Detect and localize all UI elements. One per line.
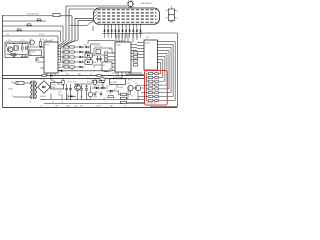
IC D4 KR1016VI1 — [144, 38, 158, 70]
capacitor C10 — [85, 86, 88, 100]
wire row 5 — [3, 36, 59, 44]
svg-text:VD1-VD4: VD1-VD4 — [39, 79, 46, 81]
svg-text:9: 9 — [133, 26, 134, 28]
diode VD9 on bus — [42, 74, 52, 76]
wire net to D3 left — [88, 41, 115, 45]
resonator ZQ1 — [53, 13, 66, 16]
svg-text:SB1-SB3 SBУ: SB1-SB3 SBУ — [27, 14, 40, 16]
wire D1 bottom pins — [47, 73, 55, 79]
resistor R24 vertical — [62, 80, 64, 84]
svg-text:СБ: СБ — [45, 40, 47, 42]
capacitor C1 — [22, 44, 24, 53]
wire outer bus right — [150, 33, 177, 106]
label box D2 — [110, 79, 126, 85]
svg-text:КТ361: КТ361 — [128, 73, 132, 75]
svg-text:a: a — [171, 5, 172, 7]
svg-text:C14: C14 — [103, 98, 106, 100]
switch S8 in red box — [146, 99, 160, 101]
svg-text:D4: D4 — [147, 37, 149, 39]
fuse FU1 — [12, 82, 31, 85]
wire psu rails — [40, 84, 145, 100]
driver row 3 — [61, 54, 85, 58]
svg-text:VT5: VT5 — [94, 97, 97, 99]
junction dots psu — [43, 85, 95, 100]
svg-text:ГД: ГД — [52, 40, 54, 42]
wire bus vertical 3 — [66, 16, 72, 40]
svg-text:R10: R10 — [90, 78, 93, 80]
resistor R19 — [100, 78, 105, 80]
svg-text:2: 2 — [140, 26, 141, 28]
label box mid — [102, 62, 112, 71]
svg-text:ИЕ18: ИЕ18 — [45, 45, 49, 47]
transistor VT4 — [75, 85, 81, 91]
svg-text:R23: R23 — [128, 80, 131, 82]
bridge rectifier VD1 — [38, 81, 51, 94]
resistor R2 — [40, 39, 42, 49]
svg-text:ИВ ЛМ5-08: ИВ ЛМ5-08 — [141, 3, 153, 5]
switch SB1 — [37, 19, 42, 22]
wire left border bus — [2, 15, 4, 108]
switch S3 in red box — [146, 80, 160, 82]
svg-text:D3: D3 — [116, 37, 118, 39]
svg-text:C8: C8 — [61, 102, 63, 104]
crystal ZQ — [13, 46, 18, 51]
wire driver verticals — [58, 46, 63, 67]
svg-text:VD5 VD6: VD5 VD6 — [97, 85, 103, 87]
svg-text:g: g — [169, 13, 170, 15]
switch S7 in red box — [146, 96, 160, 98]
label red box bottom — [147, 103, 157, 105]
transistor VT6 — [128, 85, 133, 90]
wire bottom border bus — [3, 107, 178, 109]
svg-text:R11: R11 — [133, 50, 136, 52]
label bottom texts — [40, 102, 101, 108]
wire main bus 1 — [3, 75, 145, 77]
transistor VT5 — [88, 86, 93, 100]
label VD — [39, 79, 47, 98]
svg-text:2: 2 — [107, 26, 108, 28]
transistor VT2 — [30, 40, 35, 45]
IC D3 K155ID10 — [115, 40, 131, 72]
svg-text:МИН: МИН — [66, 106, 70, 108]
svg-text:R4-R10: R4-R10 — [60, 44, 66, 46]
svg-text:C1 C2: C1 C2 — [20, 40, 25, 42]
wire links into red box — [138, 85, 146, 96]
wire xtal net — [94, 48, 115, 55]
svg-text:c: c — [177, 18, 178, 20]
oscillator box — [5, 42, 28, 58]
svg-text:КЛ-Зв: КЛ-Зв — [39, 34, 44, 36]
switch S5 in red box — [146, 88, 160, 90]
transistor VT1 — [7, 47, 12, 52]
label box freq — [29, 50, 42, 56]
wire row 2 — [3, 21, 47, 22]
junction dots osc — [13, 43, 26, 44]
diode VD7 — [106, 90, 119, 92]
svg-text:R21: R21 — [96, 92, 99, 94]
wire main bus 2 — [3, 78, 145, 80]
svg-text:VT2: VT2 — [29, 39, 32, 41]
switch S2 in red box — [146, 76, 160, 78]
svg-text:R16: R16 — [85, 86, 88, 88]
svg-text:8: 8 — [129, 26, 130, 28]
label psu texts — [80, 83, 138, 99]
svg-text:Гц: Гц — [30, 54, 32, 56]
svg-text:R16: R16 — [87, 81, 90, 83]
svg-text:50В: 50В — [58, 94, 61, 96]
svg-text:5: 5 — [118, 26, 119, 28]
svg-text:+: + — [63, 87, 64, 89]
svg-text:e: e — [164, 18, 165, 20]
label KL-3V — [7, 34, 44, 36]
resistor R10 — [92, 81, 97, 83]
resistor R15 — [108, 96, 113, 98]
svg-text:Т2: Т2 — [100, 69, 102, 71]
svg-text:ЧЦ МЦ: ЧЦ МЦ — [115, 77, 121, 79]
resistor R13 — [121, 97, 127, 99]
svg-text:R11: R11 — [96, 78, 99, 80]
label psu specks 3 — [58, 73, 132, 96]
wire bus to D3 top — [105, 34, 141, 43]
IC D1 left pins — [38, 47, 44, 68]
wire osc to D1 — [28, 47, 44, 60]
switch S1 in red box — [146, 72, 160, 74]
driver row 5 — [61, 64, 85, 68]
wire long net A — [58, 68, 110, 72]
svg-text:1000: 1000 — [58, 92, 62, 94]
wire bottom rail 2 — [44, 103, 145, 105]
svg-text:Т1: Т1 — [40, 106, 42, 108]
svg-text:VT6: VT6 — [127, 83, 130, 85]
capacitor C9 — [80, 86, 83, 100]
capacitor C7 — [63, 84, 68, 100]
ground symbols osc — [13, 55, 27, 58]
driver row 1 — [61, 44, 91, 48]
resistor R25 vertical — [94, 80, 96, 84]
wire osc top — [7, 44, 28, 48]
capacitor C6 — [99, 56, 102, 62]
svg-text:4: 4 — [115, 26, 116, 28]
wire bus vertical 4 — [75, 18, 93, 40]
wire loop inner to display — [69, 9, 94, 40]
IC D1 right pins — [58, 46, 61, 70]
wire psu verticals — [63, 76, 103, 100]
diode VD6 — [102, 87, 105, 90]
display segment diagram — [164, 5, 177, 22]
svg-text:VD5: VD5 — [106, 86, 109, 88]
label plus — [51, 80, 55, 82]
wire bus vertical 5 — [78, 20, 93, 40]
label osc parts — [8, 39, 44, 42]
driver row 4 — [61, 59, 85, 63]
svg-text:С5: С5 — [95, 40, 97, 42]
resistor R14 — [121, 101, 127, 103]
label mid — [94, 46, 102, 48]
wire loop outer to lamp — [66, 6, 127, 40]
display grid dashes — [98, 10, 157, 22]
svg-text:ZQ2 C5 C6: ZQ2 C5 C6 — [94, 46, 102, 48]
svg-text:КТ3107: КТ3107 — [118, 87, 123, 89]
svg-text:VD7: VD7 — [109, 93, 112, 95]
IC D3 left pin resistors — [104, 52, 115, 72]
wire D4 bottom — [147, 70, 152, 72]
wire row 1 from left bus — [3, 15, 54, 17]
IC D4 right pins to bus — [158, 42, 176, 101]
label 220V — [6, 89, 13, 91]
svg-text:VT7: VT7 — [135, 83, 138, 85]
transformer T1 — [31, 81, 37, 100]
wire row 4 — [3, 31, 61, 42]
svg-text:1: 1 — [104, 26, 105, 28]
label pin numbers — [104, 26, 141, 28]
capacitor C4 — [96, 50, 101, 54]
display pins — [105, 24, 141, 28]
capacitor C11 — [94, 92, 97, 97]
label psu texts 2 — [53, 78, 134, 97]
grid driver row — [102, 28, 142, 34]
svg-text:C7: C7 — [52, 102, 54, 104]
svg-text:К155ИД10: К155ИД10 — [116, 40, 125, 42]
svg-text:7: 7 — [125, 26, 126, 28]
label nets — [66, 69, 121, 79]
IC D1 K176IE18 — [44, 40, 59, 73]
resistor R26 vertical — [102, 78, 104, 82]
diode VD5 — [92, 87, 106, 90]
diode box VD10 — [85, 53, 92, 58]
capacitor C2 — [26, 46, 28, 50]
svg-text:R3: R3 — [42, 39, 44, 41]
wire osc bottom — [7, 54, 28, 56]
diode box VD11 — [85, 60, 92, 65]
wire collector bus — [91, 44, 101, 62]
label IV LM5-08 — [141, 3, 153, 5]
driver row 2 — [61, 49, 91, 53]
svg-text:3: 3 — [111, 26, 112, 28]
transistor VT7 — [135, 85, 140, 90]
svg-text:6: 6 — [122, 26, 123, 28]
svg-text:R22: R22 — [131, 96, 134, 98]
switch S6 in red box — [146, 92, 160, 94]
resistor R11 — [99, 81, 104, 83]
svg-text:1: 1 — [136, 26, 137, 28]
svg-text:R17: R17 — [114, 89, 117, 91]
svg-text:КОР: КОР — [80, 106, 83, 108]
wire D3 bottom — [118, 72, 145, 79]
wire driver to right edge — [139, 32, 177, 35]
diode VD8 — [68, 95, 76, 97]
resistor R1 — [11, 53, 16, 55]
IC D4 left pins — [137, 40, 144, 58]
label misc upper — [45, 37, 149, 61]
svg-text:C9 C10: C9 C10 — [67, 81, 72, 83]
svg-text:R18: R18 — [128, 92, 131, 94]
switch S4 in red box — [146, 84, 160, 86]
capacitor C12 — [100, 92, 103, 97]
svg-text:0В: 0В — [124, 106, 126, 108]
resistor R12 — [121, 93, 127, 95]
IC D3 right pins — [131, 45, 137, 60]
svg-text:+5В +9В: +5В +9В — [95, 105, 101, 107]
svg-text:СТ: СТ — [90, 74, 92, 76]
svg-text:СЕК: СЕК — [55, 106, 58, 108]
wire row 3 — [3, 26, 64, 42]
junction dots rails — [70, 99, 139, 104]
svg-text:~ 220В: ~ 220В — [6, 89, 13, 91]
wire display feed left — [66, 21, 94, 31]
wire mains 2 — [13, 96, 31, 98]
wire mid links — [92, 56, 102, 68]
wire fan to drivers — [58, 40, 78, 46]
wire red box left rail — [145, 74, 147, 101]
label SB1-SB3 — [27, 14, 40, 16]
resistor stack near D3 — [133, 52, 138, 67]
svg-text:ZQ1: ZQ1 — [8, 40, 11, 42]
svg-text:C13: C13 — [80, 97, 83, 99]
regulator DA1 — [51, 83, 64, 90]
switch SB3 — [17, 29, 22, 32]
capacitor C8 — [69, 84, 72, 100]
svg-text:b: b — [177, 11, 178, 13]
label bottom specks — [55, 105, 126, 108]
svg-text:T1: T1 — [29, 102, 31, 104]
capacitor C5 — [96, 56, 99, 62]
svg-text:VT3: VT3 — [100, 59, 103, 61]
wire bridge out — [44, 79, 60, 100]
svg-text:КЛ: КЛ — [7, 34, 9, 36]
capacitor C3 — [36, 58, 40, 63]
wire psu links — [106, 77, 145, 102]
highlight box red — [145, 71, 168, 106]
lamp HL1 — [127, 0, 135, 8]
svg-text:КР1016: КР1016 — [145, 43, 151, 45]
switch SB2 — [27, 24, 32, 27]
svg-text:ИД10: ИД10 — [117, 44, 121, 46]
label T1 — [29, 102, 31, 104]
junction dots bus — [62, 75, 122, 79]
svg-text:VD8: VD8 — [84, 45, 87, 47]
display HG1 IVL2-7/5 — [94, 8, 160, 24]
svg-text:SB4 SB5 SB6: SB4 SB5 SB6 — [147, 103, 157, 105]
svg-text:КР142: КР142 — [51, 85, 56, 87]
svg-text:C11: C11 — [73, 82, 76, 84]
resistor on bus R20 — [97, 74, 101, 76]
svg-text:КТ315Б: КТ315Б — [112, 73, 117, 75]
